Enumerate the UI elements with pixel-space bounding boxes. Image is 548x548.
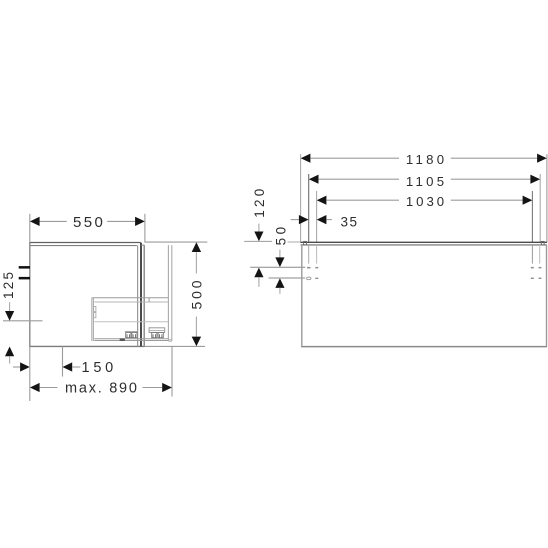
svg-text:500: 500 <box>189 280 205 309</box>
max890 left ext line continuation <box>29 346 31 401</box>
slide hatch box A <box>126 333 131 338</box>
bracket hidden line right col 1 <box>531 245 533 264</box>
cabinet body right edge <box>546 245 548 347</box>
bracket row line 2 <box>269 277 306 279</box>
bracket dash row2 left b <box>315 278 318 279</box>
slide rail upper box (extended) <box>149 328 165 333</box>
slide hatch box D <box>158 333 163 338</box>
svg-text:125: 125 <box>1 272 16 299</box>
drawer front panel front face <box>143 245 145 346</box>
bracket hidden line left col 1 <box>308 245 310 264</box>
bottom rail dark block <box>120 338 125 341</box>
dim 500 line lower seg <box>195 317 197 337</box>
bracket dash row2 right a <box>531 278 534 279</box>
drawer bottom panel line <box>94 321 168 323</box>
max890 right ext line <box>171 346 173 396</box>
ext line 1105 left <box>308 174 310 242</box>
drawer side front tick <box>148 298 150 302</box>
dim 500 line upper seg <box>195 252 197 273</box>
bracket dash row1 left a <box>307 267 311 269</box>
cabinet top outer edge <box>29 242 141 244</box>
ext line 1180 right <box>546 154 548 242</box>
ext line 1105 right <box>539 174 541 242</box>
dim 50 lower tail <box>279 288 281 294</box>
dim 35 left tail <box>291 219 300 221</box>
bracket dash row1 right b <box>539 267 542 269</box>
console plate top edge <box>301 241 548 243</box>
dim 50 down arrow <box>275 257 284 267</box>
dim 1180 left arrow <box>301 154 311 163</box>
ext line right of 550 <box>144 214 146 243</box>
cabinet body left edge <box>301 245 303 347</box>
console plate bottom edge <box>301 244 548 246</box>
dim 550 right arrow <box>135 217 145 226</box>
dim 125 lower tail <box>9 356 11 363</box>
svg-text:550: 550 <box>73 214 103 231</box>
dim 150 right tail <box>72 366 80 368</box>
dim 1030 left arrow <box>317 196 327 205</box>
dim 50 up arrow <box>275 278 284 288</box>
dim 1030 right arrow <box>523 196 533 205</box>
dim 125 up arrow <box>5 347 14 357</box>
console left end cap <box>304 241 307 245</box>
bottom extension line to 500 dim <box>145 345 205 347</box>
bottom rail line 2 <box>94 340 168 342</box>
bracket dash row1 right a <box>531 267 534 269</box>
phantom drawer front rear line (open position) <box>167 245 169 341</box>
ext line 1180 left <box>300 154 302 242</box>
dim 500 down arrow <box>192 337 201 347</box>
dim 50 upper tail <box>279 250 281 258</box>
dim 1180 line <box>310 157 399 159</box>
dim 125 down arrow <box>5 311 14 321</box>
dim 120 down arrow <box>254 232 263 242</box>
ext line 1030 left <box>316 191 318 242</box>
bracket hidden line right col 2 <box>539 245 541 264</box>
dim 150 ext line <box>62 346 64 376</box>
wall bracket tick lower <box>19 277 30 280</box>
cabinet back (left) edge <box>29 243 31 347</box>
dim 150 right-pointing arrow <box>20 362 30 371</box>
bracket hidden line left col 2 <box>316 245 318 264</box>
dim 35 right-pointing arrow <box>299 215 309 224</box>
svg-text:150: 150 <box>82 360 114 376</box>
ext line left of 550 <box>29 214 31 242</box>
dim 35 left-pointing arrow <box>317 215 327 224</box>
phantom front bottom cap <box>168 339 171 341</box>
dim 1030 line <box>326 199 399 201</box>
slide hatch box B <box>132 333 137 338</box>
ext line 1030 right <box>531 191 533 242</box>
dim 120 up arrow <box>254 268 263 278</box>
svg-text:120: 120 <box>252 189 267 218</box>
dim 1105 line <box>319 178 400 180</box>
dim 1180 right arrow <box>537 154 547 163</box>
drawer box interior: second rail line <box>94 301 168 303</box>
bracket dash row2 right b <box>539 278 542 279</box>
cabinet bottom edge <box>29 345 144 347</box>
dim 120 lower tail <box>258 277 260 287</box>
wall bracket tick upper <box>19 266 30 269</box>
dim max890 right arrow <box>162 383 172 392</box>
dim 550 left arrow <box>30 217 40 226</box>
dim max890 line left seg <box>40 387 58 389</box>
cabinet body bottom edge <box>301 346 547 348</box>
dim 1105 left arrow <box>309 175 319 184</box>
bracket dash row1 left b <box>315 267 318 269</box>
drawer back clip lower <box>94 313 96 318</box>
dim 550 line <box>39 220 66 222</box>
dim 120 upper tail <box>258 224 260 233</box>
bottom rail line 1 <box>94 338 168 340</box>
dim 500 up arrow <box>192 242 201 252</box>
dim 150 left-pointing arrow <box>63 362 73 371</box>
phantom drawer front front line <box>171 245 173 341</box>
dim max890 left arrow <box>30 383 40 392</box>
dim 1105 right arrow <box>530 175 540 184</box>
dim max890 line right seg <box>143 387 163 389</box>
dim 35 right tail <box>326 219 331 221</box>
bracket dash row2 left a <box>307 277 311 280</box>
dim 120 terminator line <box>244 240 272 242</box>
500 dim top extension line <box>146 241 208 243</box>
dim 125 terminator line <box>3 320 43 322</box>
carcass front inner edge <box>137 245 139 346</box>
console right end cap <box>541 241 544 245</box>
dim 125 upper tail <box>9 302 11 311</box>
drawer back clip upper <box>94 307 96 312</box>
console top left extension <box>288 241 301 243</box>
slide hatch box C <box>152 333 157 338</box>
bracket row line 1 <box>250 266 305 268</box>
svg-text:max. 890: max. 890 <box>65 381 137 397</box>
dim 150 left tail <box>13 366 20 368</box>
slide rail line above left hatch boxes <box>125 331 137 333</box>
drawer back wall double line <box>91 298 93 341</box>
drawer front panel rear face (dark) <box>140 243 142 347</box>
cabinet top inner edge <box>29 245 136 247</box>
svg-text:35: 35 <box>341 214 358 229</box>
drawer box interior: top rail line <box>92 297 169 299</box>
